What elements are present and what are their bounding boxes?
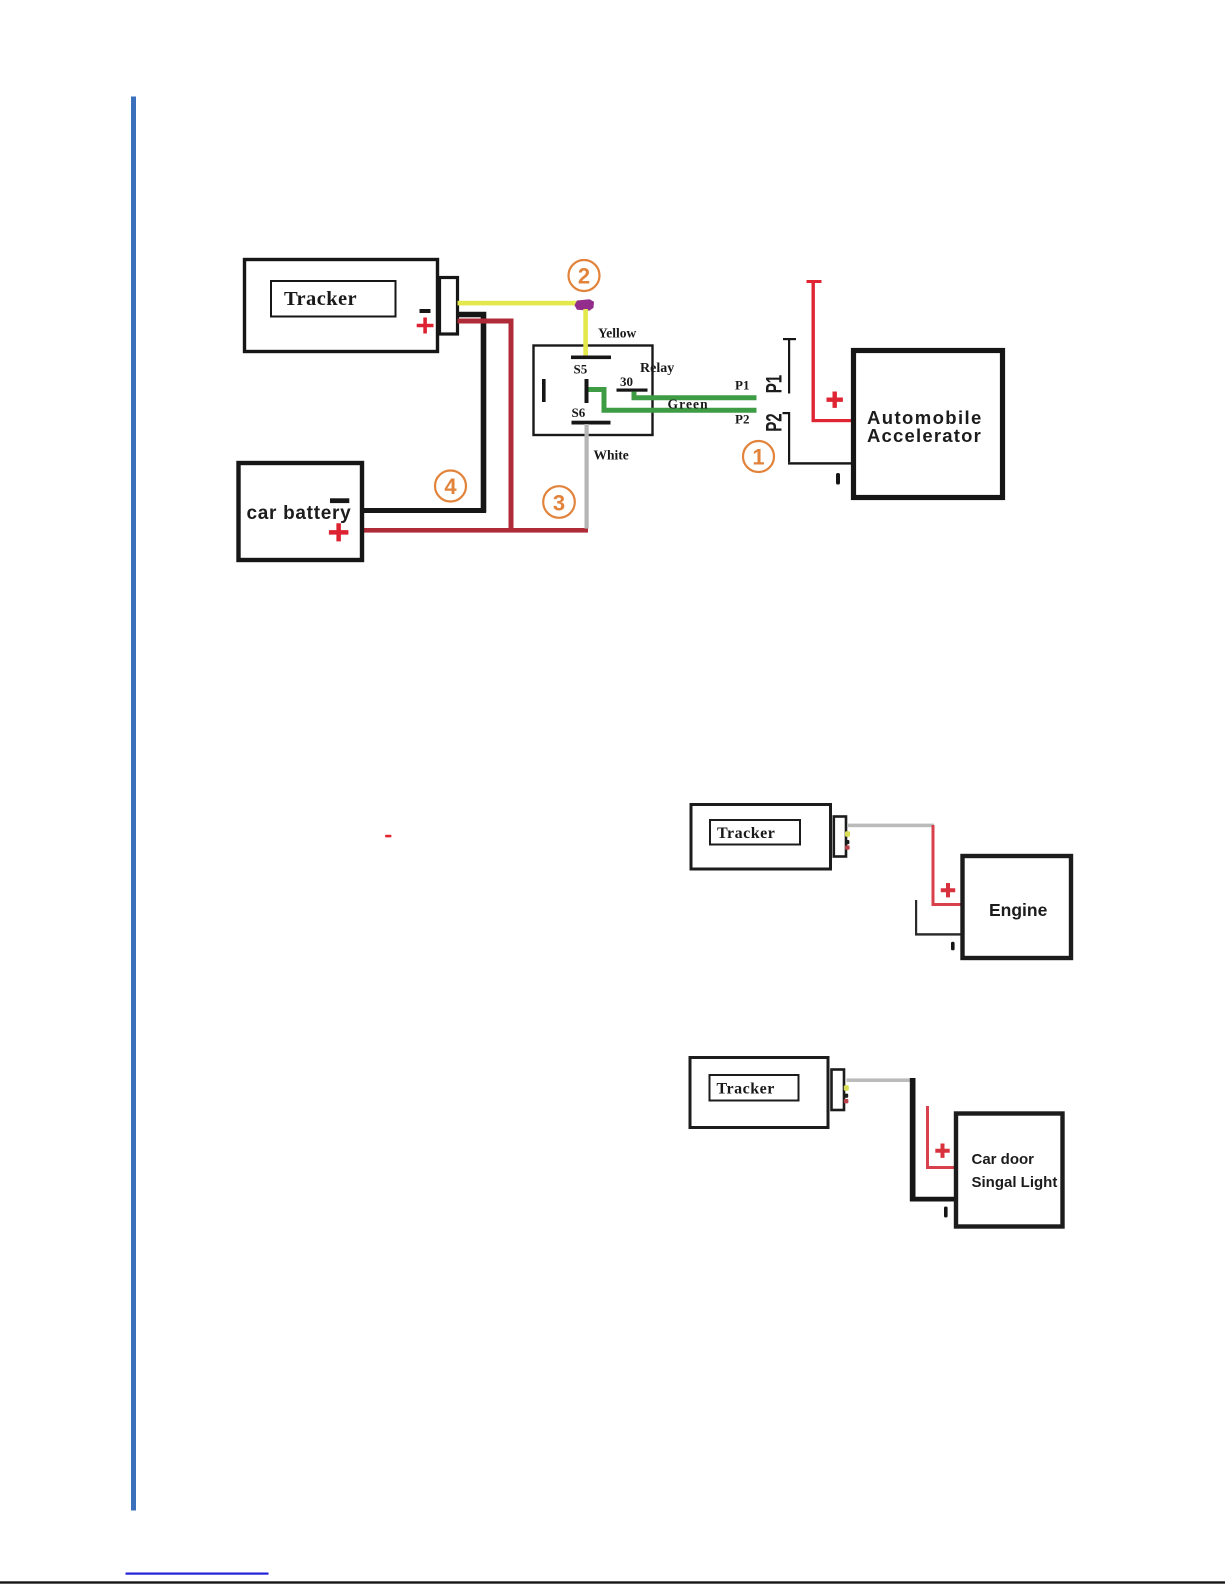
svg-text:Green: Green (668, 397, 709, 412)
tracker U3 (car door diagram) (690, 1058, 828, 1128)
svg-text:P1: P1 (762, 375, 787, 394)
tracker U3 connector (832, 1070, 849, 1111)
label P1 (small) (735, 378, 749, 393)
label White (594, 448, 629, 463)
callout 2 (569, 260, 600, 291)
wire red (to car door signal positive) (926, 1106, 954, 1169)
wire black (to car door signal ground) (910, 1078, 954, 1202)
label + (engine positive) (941, 883, 955, 897)
wire gray (tracker U3 output) (847, 1078, 911, 1082)
svg-text:Yellow: Yellow (598, 326, 636, 341)
svg-text:1: 1 (752, 445, 764, 470)
wire gray (tracker U2 output) (847, 824, 934, 828)
callout 3 (543, 486, 575, 518)
node P1 (rotated) (762, 375, 787, 394)
ground mark (engine) (951, 942, 955, 951)
svg-text:P2: P2 (762, 413, 787, 432)
callout 1 (743, 441, 774, 472)
wire yellow (splice to relay pin S5) (583, 309, 588, 358)
wire red (tracker positive to battery positive) (458, 319, 514, 531)
svg-text:Tracker: Tracker (717, 1081, 775, 1098)
relay K1 body (534, 346, 675, 436)
wire red (to engine positive) (932, 825, 961, 906)
label Green (668, 397, 709, 412)
svg-text:3: 3 (553, 491, 565, 516)
svg-text:car battery: car battery (247, 503, 352, 524)
car door signal light box (956, 1114, 1063, 1227)
svg-text:S6: S6 (572, 405, 586, 420)
battery BT1 (car battery) (239, 463, 363, 560)
relay pin 87a (left bar) (542, 379, 546, 402)
accelerator plug bracket P2 and ground wire (783, 412, 852, 465)
ground mark (car door) (944, 1207, 948, 1218)
svg-text:4: 4 (444, 474, 457, 499)
tracker U1 connector (440, 278, 458, 335)
callout 4 (435, 471, 466, 502)
svg-text:Relay: Relay (640, 361, 674, 376)
accelerator plug bracket P1 (783, 338, 796, 394)
wire green P2 (relay 87 to accelerator P2) (589, 387, 757, 413)
ground bracket (engine) (915, 900, 961, 936)
battery BT1 wire black (battery negative) (364, 508, 486, 513)
svg-text:Engine: Engine (989, 900, 1048, 920)
splice connector (purple) (575, 299, 595, 310)
relay pin 87 (middle bar) (585, 379, 589, 403)
svg-text:White: White (594, 448, 629, 463)
svg-text:Accelerator: Accelerator (867, 425, 982, 446)
label + (accelerator positive) (827, 392, 843, 408)
relay pin S5 (571, 356, 611, 377)
relay pin 30 (617, 374, 648, 392)
svg-text:30: 30 (620, 374, 633, 389)
ground mark (accelerator) (836, 473, 840, 485)
label Yellow (598, 326, 636, 341)
svg-text:S5: S5 (574, 362, 588, 377)
automobile accelerator box (854, 351, 1003, 498)
wire white (relay S6 to battery positive wire) (585, 424, 589, 529)
tracker U1 (245, 260, 438, 352)
svg-text:2: 2 (578, 264, 590, 289)
svg-text:Car door: Car door (972, 1151, 1035, 1168)
node P2 (rotated) (762, 413, 787, 432)
wire yellow (tracker to splice) (458, 301, 578, 306)
svg-text:Singal Light: Singal Light (972, 1174, 1058, 1191)
battery BT1 wire red (battery positive to white wire) (364, 528, 588, 533)
engine box (963, 856, 1072, 958)
svg-text:P2: P2 (735, 412, 749, 427)
wire black (tracker negative to battery negative) (457, 312, 486, 513)
svg-text:Tracker: Tracker (717, 825, 775, 842)
tracker U2 (engine diagram) (691, 805, 831, 870)
tracker U2 connector (834, 817, 850, 857)
svg-text:P1: P1 (735, 378, 749, 393)
label + (car door positive) (935, 1144, 949, 1158)
svg-text:Tracker: Tracker (284, 288, 357, 310)
wire red (accelerator positive feed) (807, 280, 852, 422)
relay pin S6 (572, 405, 611, 425)
wire green P1 (relay 30 to accelerator P1) (632, 392, 757, 401)
label P2 (small) (735, 412, 749, 427)
